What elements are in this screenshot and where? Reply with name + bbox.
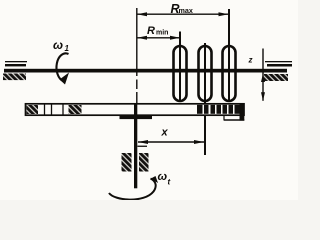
svg-text:z: z [248,56,253,65]
svg-text:max: max [179,6,193,15]
svg-text:x: x [161,127,169,139]
svg-text:ω: ω [158,171,168,183]
svg-text:R: R [147,25,155,37]
svg-text:1: 1 [65,44,70,53]
svg-text:min: min [156,30,168,37]
svg-text:ω: ω [53,38,63,52]
svg-text:t: t [168,178,171,187]
